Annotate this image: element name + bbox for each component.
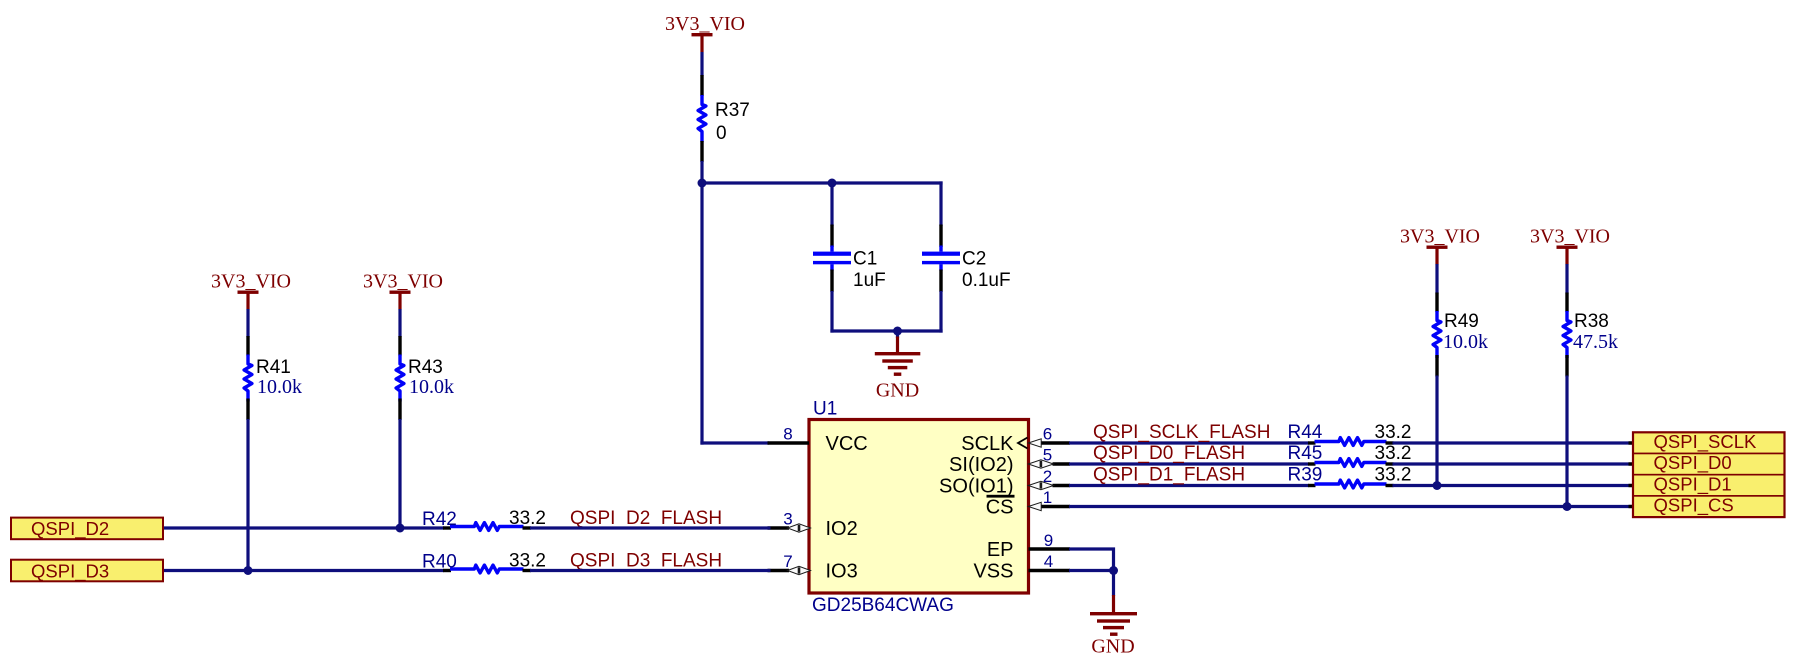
- svg-text:SCLK: SCLK: [961, 433, 1014, 455]
- resistor R44 pin 2: [1386, 441, 1394, 444]
- svg-text:10.0k: 10.0k: [409, 376, 454, 398]
- svg-text:3V3_VIO: 3V3_VIO: [1400, 226, 1480, 248]
- power 3V3_VIO (top, above R37): [665, 13, 745, 52]
- wire D0 row R45 to port: [1393, 462, 1635, 465]
- resistor R41 pin 1: [246, 336, 249, 356]
- resistor R45 pin 2: [1386, 462, 1394, 465]
- resistor R45 pin 1: [1308, 462, 1316, 465]
- wire black stub at SCLK port: [1629, 441, 1635, 444]
- svg-text:R38: R38: [1574, 311, 1609, 332]
- svg-text:10.0k: 10.0k: [257, 376, 302, 398]
- port QSPI_D3: [11, 560, 163, 583]
- pin 1 input arrow: [1028, 502, 1041, 510]
- svg-text:6: 6: [1043, 425, 1052, 444]
- wire D3 row from R40 to chip: [530, 569, 771, 572]
- resistor R44 pin 1: [1308, 441, 1316, 444]
- svg-text:3V3_VIO: 3V3_VIO: [363, 271, 443, 293]
- pin 6 lead (SCLK): [1040, 441, 1070, 444]
- resistor R41 body: [244, 355, 252, 402]
- svg-text:CS: CS: [986, 497, 1014, 519]
- wire C2 bottom stub: [939, 291, 942, 333]
- wire R49 down to D1 row: [1435, 376, 1438, 486]
- wire SCLK row R44 to port: [1393, 441, 1635, 444]
- wire D1 row R39 to port: [1393, 484, 1635, 487]
- svg-text:33.2: 33.2: [509, 508, 546, 529]
- resistor R49 body: [1433, 311, 1441, 358]
- node junction at C1 top: [828, 179, 837, 188]
- wire gnd stub: [896, 331, 899, 338]
- svg-text:33.2: 33.2: [1375, 464, 1412, 485]
- svg-text:3: 3: [783, 510, 792, 529]
- svg-text:1uF: 1uF: [853, 270, 886, 291]
- capacitor C1 body: [813, 246, 851, 271]
- node junction caps gnd: [893, 327, 902, 336]
- pin 9 lead (EP): [1029, 547, 1071, 550]
- resistor R43 pin 2: [398, 399, 401, 421]
- wire R43 down to D2 row: [398, 419, 401, 530]
- wire SCLK row pin to R44: [1069, 441, 1309, 444]
- wire D2 row from port to R42: [164, 526, 444, 529]
- svg-text:QSPI_D2_FLASH: QSPI_D2_FLASH: [570, 508, 722, 529]
- node junction R43/D2: [396, 524, 405, 533]
- resistor R38 pin 2: [1565, 355, 1568, 377]
- resistor R44 body: [1315, 438, 1387, 446]
- wire R37 down to VCC row: [700, 161, 703, 445]
- resistor R37 pin 2: [700, 141, 703, 162]
- pin 2 lead (SO): [1053, 484, 1071, 487]
- svg-text:7: 7: [783, 552, 792, 571]
- svg-text:47.5k: 47.5k: [1573, 331, 1618, 353]
- resistor R40 body: [450, 565, 524, 573]
- svg-text:4: 4: [1044, 552, 1053, 571]
- svg-text:R40: R40: [422, 552, 457, 573]
- pin 7 lead (IO3): [768, 569, 790, 572]
- resistor R37 body: [698, 95, 706, 142]
- pin 7 bidirectional arrow: [788, 566, 811, 574]
- power 3V3_VIO (above R49): [1400, 226, 1480, 265]
- capacitor C2 body: [922, 246, 960, 271]
- svg-text:GND: GND: [876, 380, 919, 402]
- wire power to R49: [1435, 264, 1438, 294]
- svg-text:U1: U1: [813, 399, 837, 420]
- wire black stub at CS port: [1629, 505, 1635, 508]
- svg-text:IO3: IO3: [826, 561, 858, 583]
- wire gnd stem: [1112, 571, 1115, 597]
- svg-text:VSS: VSS: [973, 561, 1013, 583]
- svg-text:SO(IO1): SO(IO1): [939, 475, 1013, 497]
- svg-text:R45: R45: [1288, 443, 1323, 464]
- wire C1 top stub: [830, 183, 833, 226]
- node junction R49/D1: [1433, 481, 1442, 490]
- resistor R43 body: [396, 355, 404, 402]
- svg-text:QSPI_SCLK: QSPI_SCLK: [1654, 431, 1757, 453]
- pin 3 bidirectional arrow: [788, 524, 811, 532]
- svg-text:33.2: 33.2: [1375, 422, 1412, 443]
- port QSPI_D2: [11, 518, 163, 540]
- port QSPI_D0: [1633, 452, 1785, 475]
- wire CS row pin to port: [1069, 505, 1634, 508]
- wire caps bottom horizontal: [830, 329, 942, 332]
- resistor R43 pin 1: [398, 336, 401, 356]
- wire C2 column from top wire: [939, 181, 942, 226]
- capacitor C2 pin 2: [939, 270, 942, 293]
- svg-text:3V3_VIO: 3V3_VIO: [211, 271, 291, 293]
- pin 6 input arrow: [1028, 439, 1041, 447]
- pin 5 bidirectional arrow: [1028, 460, 1053, 468]
- svg-text:GND: GND: [1091, 636, 1134, 658]
- resistor R40 pin 2: [523, 569, 532, 572]
- svg-text:R49: R49: [1444, 311, 1479, 332]
- power 3V3_VIO (above R38): [1530, 226, 1610, 265]
- wire 3V3_VIO to R37: [700, 52, 703, 76]
- svg-text:8: 8: [783, 425, 792, 444]
- wire D0 row pin to R45: [1069, 462, 1309, 465]
- resistor R49 pin 1: [1435, 293, 1438, 313]
- node junction R41/D3: [244, 566, 253, 575]
- svg-text:IO2: IO2: [826, 518, 858, 540]
- capacitor C2 pin 1: [939, 225, 942, 248]
- svg-text:QSPI_D3: QSPI_D3: [31, 561, 109, 583]
- svg-text:EP: EP: [987, 539, 1014, 561]
- ports outer frame: [1633, 432, 1785, 517]
- svg-text:R39: R39: [1288, 464, 1323, 485]
- svg-text:R44: R44: [1288, 422, 1323, 443]
- wire R41 down to D3 row: [246, 419, 249, 572]
- pin 2 bidirectional arrow: [1028, 481, 1053, 489]
- wire D2 row from R42 to chip: [530, 526, 771, 529]
- op-amp U1 body GD25B64CWAG: [809, 420, 1029, 594]
- svg-text:QSPI_D2: QSPI_D2: [31, 518, 109, 540]
- wire D1 row pin to R39: [1069, 484, 1309, 487]
- resistor R42 body: [450, 523, 524, 531]
- pin 3 lead (IO2): [768, 526, 790, 529]
- power 3V3_VIO (above R41): [211, 271, 291, 310]
- wire D3 row from port to R40: [164, 569, 444, 572]
- ground GND (VSS): [1090, 595, 1137, 658]
- svg-text:QSPI_D0: QSPI_D0: [1654, 452, 1732, 474]
- capacitor C1 pin 1: [830, 225, 833, 248]
- svg-text:R43: R43: [408, 357, 443, 378]
- resistor R49 pin 2: [1435, 355, 1438, 377]
- node junction R38/CS: [1563, 502, 1572, 511]
- wire C1 bottom stub: [830, 291, 833, 333]
- clock chevron on SCLK pin: [1018, 438, 1028, 449]
- power 3V3_VIO (above R43): [363, 271, 443, 310]
- ground GND (caps): [875, 337, 921, 402]
- svg-text:9: 9: [1044, 531, 1053, 550]
- resistor R39 pin 1: [1308, 484, 1316, 487]
- wire R38 down to CS row: [1565, 376, 1568, 507]
- resistor R40 pin 1: [443, 569, 451, 572]
- svg-text:3V3_VIO: 3V3_VIO: [665, 13, 745, 35]
- wire black stub at D0 port: [1629, 462, 1635, 465]
- wire power to R43: [398, 309, 401, 337]
- svg-text:QSPI_D1: QSPI_D1: [1654, 473, 1732, 495]
- resistor R37 pin 1: [700, 75, 703, 96]
- wire VSS to gnd node: [1069, 569, 1115, 572]
- svg-text:QSPI_SCLK_FLASH: QSPI_SCLK_FLASH: [1093, 422, 1270, 443]
- pin 4 lead (VSS): [1029, 569, 1071, 572]
- port QSPI_CS: [1633, 495, 1785, 517]
- resistor R38 pin 1: [1565, 293, 1568, 313]
- svg-text:33.2: 33.2: [1375, 443, 1412, 464]
- svg-text:QSPI_D1_FLASH: QSPI_D1_FLASH: [1093, 464, 1245, 485]
- svg-text:VCC: VCC: [826, 433, 868, 455]
- resistor R42 pin 2: [523, 526, 532, 529]
- svg-text:R37: R37: [715, 100, 750, 121]
- port QSPI_SCLK: [1633, 431, 1785, 454]
- pin 5 lead (SI): [1053, 462, 1071, 465]
- svg-text:SI(IO2): SI(IO2): [949, 454, 1013, 476]
- pin 1 lead (CS): [1040, 505, 1070, 508]
- resistor R39 body: [1315, 480, 1387, 488]
- capacitor C1 pin 2: [830, 270, 833, 293]
- wire EP to corner: [1069, 549, 1114, 571]
- svg-text:QSPI_D0_FLASH: QSPI_D0_FLASH: [1093, 443, 1245, 464]
- node junction VSS/EP: [1109, 566, 1118, 575]
- resistor R39 pin 2: [1386, 484, 1394, 487]
- svg-text:3V3_VIO: 3V3_VIO: [1530, 226, 1610, 248]
- svg-text:QSPI_D3_FLASH: QSPI_D3_FLASH: [570, 551, 722, 572]
- resistor R38 body: [1563, 311, 1571, 358]
- svg-text:R41: R41: [256, 357, 291, 378]
- resistor R42 pin 1: [443, 526, 451, 529]
- port QSPI_D1: [1633, 473, 1785, 496]
- svg-text:C1: C1: [853, 249, 877, 270]
- wire power to R41: [246, 309, 249, 337]
- svg-text:R42: R42: [422, 509, 457, 530]
- wire top horizontal to caps: [702, 181, 943, 184]
- svg-text:QSPI_CS: QSPI_CS: [1654, 495, 1734, 517]
- svg-text:10.0k: 10.0k: [1443, 331, 1488, 353]
- wire power to R38: [1565, 264, 1568, 294]
- svg-text:33.2: 33.2: [509, 551, 546, 572]
- resistor R45 body: [1315, 459, 1387, 467]
- resistor R41 pin 2: [246, 399, 249, 421]
- node junction at R37 bottom: [698, 179, 707, 188]
- svg-text:GD25B64CWAG: GD25B64CWAG: [812, 595, 954, 616]
- svg-text:C2: C2: [962, 249, 986, 270]
- svg-text:0.1uF: 0.1uF: [962, 270, 1011, 291]
- wire VCC row horizontal: [700, 441, 769, 444]
- svg-text:1: 1: [1043, 488, 1052, 507]
- pin 8 lead (VCC): [768, 441, 810, 444]
- wire black stub at D1 port: [1629, 484, 1635, 487]
- svg-text:0: 0: [716, 123, 727, 144]
